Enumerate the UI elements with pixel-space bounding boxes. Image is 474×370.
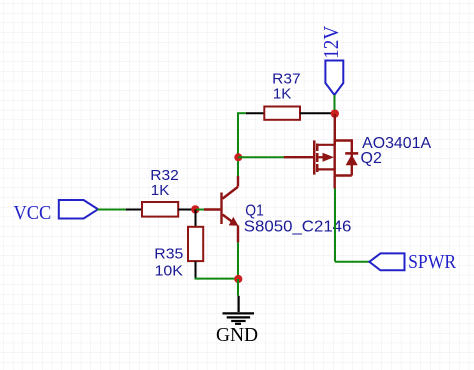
svg-text:10K: 10K xyxy=(155,262,183,279)
wire junction A down to R35 xyxy=(195,210,197,228)
wire junction C to ground xyxy=(237,279,239,296)
svg-text:1K: 1K xyxy=(273,86,292,103)
svg-text:1K: 1K xyxy=(151,182,170,199)
transistor Q1 xyxy=(220,176,238,242)
wire junction B to Q2 gate xyxy=(238,156,314,158)
wire Q1 emitter down to junction C xyxy=(237,243,239,280)
port VCC xyxy=(14,200,99,224)
wire VCC to R32 xyxy=(98,209,143,211)
svg-text:Q1: Q1 xyxy=(245,203,264,220)
resistor R35 xyxy=(188,227,203,279)
svg-text:SPWR: SPWR xyxy=(408,251,457,273)
svg-text:12V: 12V xyxy=(319,26,343,59)
svg-text:VCC: VCC xyxy=(14,202,52,224)
wire to SPWR xyxy=(335,261,369,263)
port 12V xyxy=(319,26,343,95)
wire junction D to Q2 source xyxy=(334,114,336,145)
resistor R37 xyxy=(264,107,331,120)
wire 12V to junction D xyxy=(334,95,336,110)
body diode of Q2 xyxy=(335,139,359,175)
wire Q1 collector up to R37 xyxy=(237,113,264,176)
svg-text:Q2: Q2 xyxy=(361,150,382,167)
svg-text:GND: GND xyxy=(216,324,258,346)
resistor R32 xyxy=(142,202,196,217)
svg-text:R35: R35 xyxy=(154,245,183,262)
wire R35 bottom to emitter node xyxy=(195,278,239,280)
junction D (12V/R37/Q2 source) xyxy=(331,109,339,117)
junction C (emitter/R35/GND) xyxy=(234,275,242,283)
wire Q2 drain down xyxy=(334,176,337,262)
junction A (R32/R35/Q1 base) xyxy=(191,205,199,213)
wire junction A to Q1 base xyxy=(196,209,220,211)
ground xyxy=(223,296,255,324)
junction B (collector/gate) xyxy=(234,153,242,161)
port SPWR xyxy=(369,251,456,273)
mosfet Q2 xyxy=(313,140,335,175)
